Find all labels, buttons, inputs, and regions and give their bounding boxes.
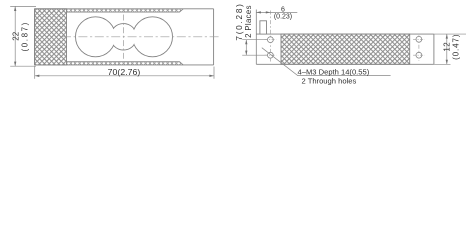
- dim 22 label: [12, 21, 30, 52]
- dim 7 dimension line: [245, 40, 247, 56]
- right hole 1: [416, 36, 422, 42]
- bar outline right view: [256, 10, 434, 65]
- right circle: [133, 17, 173, 57]
- svg-text:6: 6: [281, 6, 285, 13]
- middle circle fill mask: [111, 24, 136, 49]
- dim 6 dimension line: [256, 11, 297, 13]
- bottom flexure slot (line + bead row): [67, 62, 184, 65]
- arrow up (7): [245, 40, 247, 45]
- vertical centerline: [123, 15, 125, 59]
- left hole 1: [268, 37, 274, 43]
- top flexure slot (line + bead row): [67, 9, 184, 12]
- leader line M3 holes: [262, 48, 391, 76]
- horizontal centerline: [62, 36, 220, 38]
- svg-text:70(2.76): 70(2.76): [108, 67, 141, 77]
- middle circle: [110, 24, 136, 50]
- right hole 1 center mark: [413, 38, 425, 40]
- arrow right (70): [209, 75, 214, 77]
- dim 7 label: [235, 2, 253, 40]
- left holes centerline: [269, 11, 271, 62]
- svg-text:(0.23): (0.23): [274, 13, 292, 20]
- dim 70 dimension line: [35, 75, 214, 77]
- svg-text:7(0.28): 7(0.28): [235, 2, 244, 40]
- bottom edge: [35, 64, 214, 66]
- fixed-end hatch block: [35, 9, 67, 65]
- arrow down (22 bottom): [14, 62, 16, 67]
- left hole 1 center mark: [265, 39, 277, 41]
- bottom edge: [256, 63, 434, 65]
- svg-text:2 Places: 2 Places: [244, 5, 253, 38]
- svg-text:12: 12: [443, 42, 452, 52]
- top edge: [256, 33, 434, 35]
- right holes centerline: [418, 35, 420, 61]
- body outline left view: [35, 9, 214, 65]
- arrow down (12): [446, 60, 448, 65]
- dim 22 extension lines: [10, 6, 36, 66]
- binocular cutout: [76, 17, 173, 57]
- arrow up (12): [446, 34, 448, 39]
- svg-text:2 Through holes: 2 Through holes: [302, 77, 357, 86]
- cable tab: [260, 21, 267, 34]
- dim 12 extension lines: [434, 34, 466, 64]
- left hole 2: [268, 52, 274, 58]
- right edge: [433, 34, 435, 64]
- top bead circles: [67, 9, 181, 12]
- right hole 2: [416, 52, 422, 58]
- left edge: [34, 9, 36, 65]
- arrow up (22 top): [14, 6, 16, 11]
- left hole 2 center mark: [265, 54, 277, 56]
- right edge: [213, 9, 215, 65]
- arrow down (7): [245, 51, 247, 56]
- dim 70 extension lines: [35, 67, 214, 79]
- svg-text:4–M3 Depth 14(0.55): 4–M3 Depth 14(0.55): [298, 67, 370, 76]
- hatch section of bar: [281, 34, 410, 64]
- bottom bead circles: [67, 62, 181, 65]
- svg-text:(0.47): (0.47): [452, 34, 461, 60]
- top edge: [35, 8, 214, 10]
- arrow right (6): [266, 11, 271, 13]
- dim 12 label: [443, 34, 461, 60]
- dim 12 dimension line: [446, 34, 448, 64]
- svg-text:22: 22: [12, 31, 21, 40]
- left circle: [76, 17, 116, 57]
- left edge (also ext line for dim 6): [255, 10, 257, 65]
- arrow left (6): [256, 11, 261, 13]
- dim 7 extension lines: [242, 40, 267, 56]
- svg-text:(0.87): (0.87): [21, 21, 30, 52]
- dim 22 dimension line: [14, 6, 16, 66]
- arrow left (70): [35, 75, 40, 77]
- right hole 2 center mark: [413, 54, 425, 56]
